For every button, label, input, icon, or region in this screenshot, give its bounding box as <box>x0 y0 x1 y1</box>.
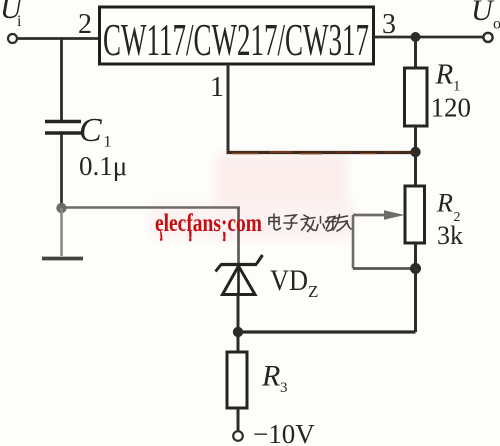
junction <box>233 327 243 337</box>
watermark chinese text <box>269 214 351 232</box>
svg-text:C: C <box>79 112 102 149</box>
svg-text:3k: 3k <box>437 221 463 250</box>
resistor R1 <box>405 68 428 126</box>
svg-text:U: U <box>471 0 495 27</box>
svg-text:0.1μ: 0.1μ <box>79 151 127 181</box>
wire <box>414 126 417 152</box>
junction <box>411 32 421 42</box>
node Ui label <box>0 0 24 30</box>
wire <box>60 39 63 122</box>
svg-text:1: 1 <box>210 72 224 103</box>
svg-text:VD: VD <box>270 264 308 297</box>
wire pin 1 <box>227 64 416 154</box>
terminal -10V <box>233 431 243 441</box>
wire <box>60 208 63 256</box>
wire <box>238 330 416 333</box>
terminal Ui <box>8 34 17 43</box>
label VDz <box>270 264 318 301</box>
zi <box>284 215 297 229</box>
svg-text:R: R <box>436 189 453 218</box>
svg-text:o: o <box>493 16 500 33</box>
capacitor C1 <box>45 122 81 134</box>
svg-text:R: R <box>261 360 280 393</box>
svg-text:R: R <box>435 59 454 91</box>
svg-text:3: 3 <box>382 9 396 40</box>
regulator U1 CW117/CW217/CW317 <box>100 7 374 65</box>
wire <box>237 332 240 352</box>
wire <box>374 36 484 39</box>
svg-text:elecfans·com: elecfans·com <box>155 210 262 237</box>
svg-text:1: 1 <box>104 134 112 151</box>
svg-text:3: 3 <box>280 380 288 396</box>
wire <box>353 215 416 269</box>
watermark elecfans.com <box>155 210 262 241</box>
wire <box>414 152 417 186</box>
you <box>333 215 351 232</box>
wire <box>237 208 240 264</box>
wire <box>237 408 240 431</box>
wiper arrow R2 <box>353 210 405 219</box>
label R3 <box>261 360 288 397</box>
svg-text:i: i <box>17 13 22 30</box>
shao <box>317 217 336 232</box>
svg-text:CW117/CW217/CW317: CW117/CW217/CW317 <box>103 14 369 65</box>
ground <box>42 257 83 261</box>
svg-text:−10V: −10V <box>253 419 315 446</box>
wire <box>62 206 241 208</box>
node Uo label <box>471 0 500 33</box>
wire <box>18 37 101 40</box>
wire <box>414 243 417 332</box>
zener diode VDz <box>216 255 263 296</box>
wire <box>60 134 63 207</box>
potentiometer R2 <box>405 186 425 243</box>
junction <box>410 147 420 157</box>
wire <box>237 295 240 333</box>
wire <box>414 37 417 68</box>
terminal Uo <box>483 33 492 42</box>
junction <box>56 203 66 213</box>
svg-text:Z: Z <box>308 282 318 301</box>
label R1 <box>435 59 461 95</box>
dian <box>269 214 281 230</box>
resistor R3 <box>227 352 247 408</box>
svg-text:2: 2 <box>78 9 92 40</box>
junction <box>410 263 421 274</box>
fa <box>301 215 316 232</box>
label R2 <box>436 189 461 226</box>
label C1 <box>79 112 112 151</box>
svg-text:120: 120 <box>431 93 472 123</box>
